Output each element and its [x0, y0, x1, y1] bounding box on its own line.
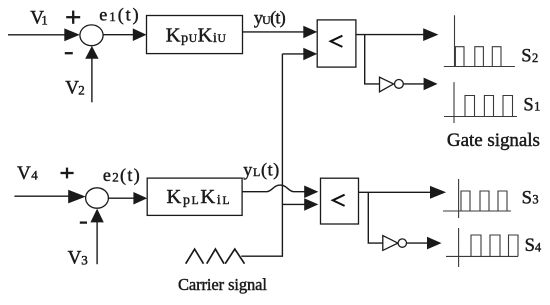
- arrowhead V1 into summer: [64, 28, 80, 41]
- plus sign at summing junction SJ2: [61, 168, 74, 179]
- waveform S1 pulses: [465, 96, 513, 117]
- arrowhead carrier into comparator CMP2: [304, 198, 318, 211]
- waveform S1 axis: [444, 82, 517, 123]
- gain block K1 KpUKiU: [147, 16, 243, 54]
- minus sign at summing junction U1: [65, 52, 73, 54]
- waveform S4 axis: [446, 228, 518, 267]
- arrowhead yU into comparator CMP1: [303, 26, 317, 39]
- inverter N2 triangle: [383, 236, 398, 251]
- less-than symbol in CMP1: [331, 36, 343, 47]
- inverter N1 triangle: [380, 77, 394, 92]
- waveform S2 axis: [444, 15, 515, 66]
- comparator CMP1: [317, 20, 356, 67]
- carrier signal triangle waveform: [186, 249, 245, 264]
- wire carrier net vertical: [241, 54, 282, 256]
- wire e2 to gain block: [108, 197, 135, 199]
- gain block K2 KpLKiL: [147, 178, 242, 215]
- wire V3 input: [96, 221, 98, 264]
- svg-text:Carrier signal: Carrier signal: [178, 275, 267, 294]
- less-than symbol in CMP2: [333, 195, 345, 206]
- wire CMP1 output branch to inverter N1: [365, 35, 380, 84]
- wire e1 to gain block: [103, 34, 134, 36]
- summing junction SJ1: [80, 25, 103, 46]
- wire CMP2 output branch to inverter N2: [368, 192, 383, 243]
- waveform S3 pulses: [461, 191, 507, 211]
- wire V2 input: [91, 58, 93, 103]
- svg-text:e1(t): e1(t): [99, 5, 138, 26]
- waveform S3 axis: [443, 179, 511, 218]
- arrowhead e1 into block K1: [133, 28, 147, 41]
- arrowhead S3: [430, 186, 446, 199]
- plus sign at summing junction U1: [66, 11, 80, 24]
- arrowhead V4 into summer: [68, 190, 86, 204]
- svg-text:Gate signals: Gate signals: [447, 130, 540, 151]
- arrowhead V2 into summer: [85, 46, 98, 59]
- wire yL to comparator with hop over carrier line: [242, 185, 305, 192]
- inverter N1 bubble: [395, 80, 404, 89]
- comparator CMP2: [321, 178, 359, 224]
- wire N2 output to S4: [407, 242, 429, 244]
- arrowhead V3 into summer: [90, 209, 103, 223]
- wire CMP1 output to S2: [356, 34, 425, 36]
- wire V4 input: [14, 195, 70, 197]
- wire N1 output to S1: [403, 83, 424, 85]
- wire yU to comparator: [243, 31, 305, 33]
- minus sign at summing junction SJ2: [80, 221, 87, 223]
- summing junction SJ2: [86, 188, 109, 208]
- wire V1 input: [8, 34, 66, 36]
- arrowhead yL into comparator CMP2: [304, 186, 318, 199]
- wire carrier branch to CMP2: [282, 203, 305, 205]
- svg-text:e2(t): e2(t): [103, 165, 140, 186]
- arrowhead e2 into block K2: [133, 192, 147, 205]
- wire CMP2 output to S3: [359, 191, 432, 193]
- wire carrier branch to CMP1: [282, 53, 304, 55]
- arrowhead S4: [427, 237, 442, 250]
- inverter N2 bubble: [398, 239, 406, 247]
- waveform S2 pulses: [455, 47, 501, 67]
- arrowhead S1: [424, 78, 438, 91]
- waveform S4 pulses: [471, 235, 518, 256]
- arrowhead S2: [423, 28, 438, 41]
- arrowhead carrier into comparator CMP1: [303, 48, 317, 61]
- svg-text:yU(t): yU(t): [254, 7, 286, 28]
- svg-text:yL(t): yL(t): [243, 159, 279, 180]
